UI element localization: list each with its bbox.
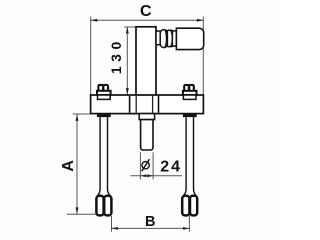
knob ball — [160, 30, 167, 48]
knob neck — [156, 31, 161, 45]
bolt right boss — [183, 95, 196, 99]
svg-text:B: B — [145, 214, 155, 230]
arrow dia left — [140, 174, 146, 177]
dimension line A — [76, 114, 78, 214]
knob ball arc — [165, 31, 166, 47]
knob cup — [167, 30, 172, 46]
arrow 130 down — [126, 88, 129, 95]
leg left rod — [100, 117, 107, 190]
diameter symbol — [142, 162, 149, 169]
crossbar — [91, 95, 204, 114]
svg-text:A: A — [60, 160, 77, 172]
leg left flare — [97, 189, 110, 195]
bolt right cap — [184, 85, 189, 91]
extension line dia left — [139, 152, 141, 179]
boss line left — [129, 96, 131, 113]
arrow C left — [91, 19, 98, 22]
dimension line B — [112, 227, 190, 229]
extension line 130 top — [124, 26, 136, 28]
extension line C right — [202, 17, 204, 95]
knob cup arc — [171, 31, 173, 47]
shaft tip — [141, 120, 153, 150]
thread line left — [135, 96, 137, 113]
svg-text:130: 130 — [108, 37, 124, 74]
extension line B left — [111, 216, 113, 232]
extension line dia right — [152, 152, 154, 179]
svg-text:C: C — [140, 3, 152, 20]
dimension line dia — [130, 175, 182, 177]
arrow 130 up — [126, 27, 129, 34]
boss line right — [158, 96, 160, 113]
arrow B right — [183, 227, 190, 230]
leg right flare — [183, 189, 196, 195]
bolt right flange — [183, 91, 197, 95]
arrow A down — [76, 207, 79, 214]
bolt left flange — [97, 91, 111, 95]
arrow C right — [197, 19, 204, 22]
extension line B right — [188, 216, 190, 232]
extension line A top — [73, 113, 90, 115]
extension line A bottom — [67, 213, 96, 215]
spindle body — [136, 27, 156, 95]
bolt left cap — [98, 85, 103, 91]
arrow B left — [112, 227, 119, 230]
leg right rod — [186, 117, 193, 190]
collar — [139, 114, 154, 120]
leg left band — [97, 114, 111, 117]
extension line C left — [90, 17, 92, 95]
foot right — [182, 196, 189, 216]
arrow A up — [76, 114, 79, 121]
bolt left boss — [98, 95, 111, 99]
knob collar — [172, 31, 176, 46]
arrow dia right — [147, 174, 153, 177]
foot left — [96, 196, 103, 216]
dimension line 130 — [126, 27, 128, 95]
svg-text:24: 24 — [160, 159, 182, 176]
thread line right — [152, 96, 154, 113]
leg right band — [183, 114, 197, 117]
knob cylinder — [176, 28, 203, 49]
dimension line C — [91, 19, 204, 21]
